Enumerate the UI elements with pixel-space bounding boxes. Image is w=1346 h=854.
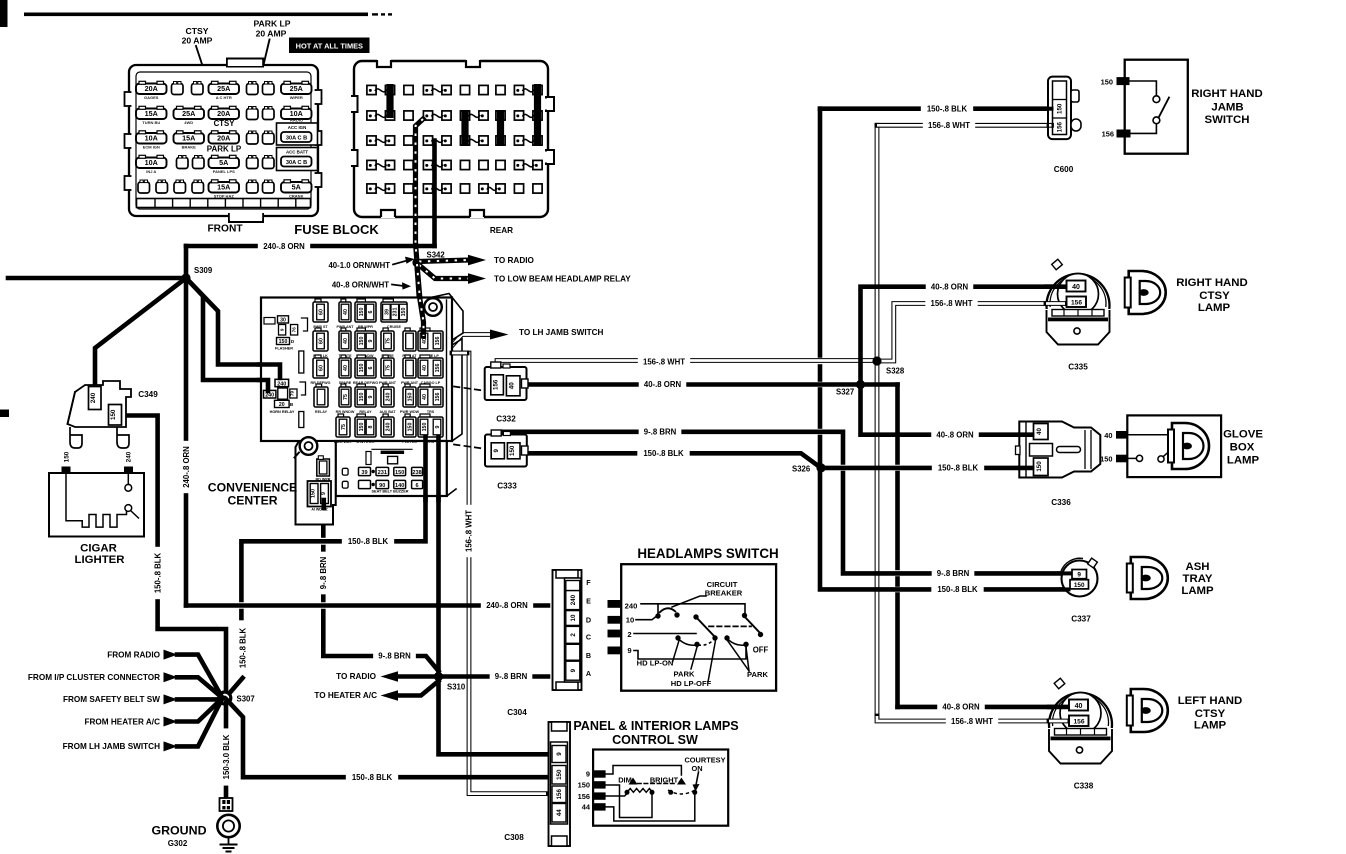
wire C349 150 to S307 xyxy=(121,416,158,547)
label 150-.8 BLK (ash tray) xyxy=(931,585,983,595)
label 9-.8 BRN (ash tray) xyxy=(932,569,975,579)
CC connector PWR ANT xyxy=(341,299,346,303)
CC connector A WYL DR xyxy=(357,414,365,418)
svg-text:TO LH JAMB SWITCH: TO LH JAMB SWITCH xyxy=(519,328,604,337)
svg-text:150: 150 xyxy=(1101,77,1113,86)
wire 40 ORN to LH ctsy lamp xyxy=(898,705,1076,710)
svg-text:40: 40 xyxy=(1036,428,1043,435)
svg-text:5A: 5A xyxy=(292,183,301,192)
svg-text:LAMP: LAMP xyxy=(1198,302,1231,314)
svg-text:150-.8 BLK: 150-.8 BLK xyxy=(352,773,393,782)
svg-text:15A: 15A xyxy=(217,183,230,192)
svg-text:76: 76 xyxy=(292,327,297,333)
fuse 10A ECM IGN xyxy=(136,133,167,144)
slot r4c xyxy=(247,158,259,169)
svg-text:44: 44 xyxy=(556,809,563,816)
RH jamb terminal 156 xyxy=(1117,130,1131,138)
wire stub 156 WHT into C335 xyxy=(1046,301,1065,306)
svg-text:40: 40 xyxy=(422,365,428,371)
svg-text:CONTROL SW: CONTROL SW xyxy=(612,733,698,747)
svg-text:C308: C308 xyxy=(504,833,524,842)
wire to LH jamb switch (white) xyxy=(450,335,490,349)
wire 40 ORN S327 up to RH ctsy lamp xyxy=(861,287,1068,385)
connector C333 xyxy=(485,435,527,467)
RH ctsy lamp socket C335 xyxy=(1047,310,1110,345)
svg-text:HD LP-OFF: HD LP-OFF xyxy=(671,679,712,688)
svg-text:FUSE BLOCK: FUSE BLOCK xyxy=(294,222,379,237)
svg-text:9: 9 xyxy=(368,339,374,342)
svg-text:9-.8 BRN: 9-.8 BRN xyxy=(937,569,970,578)
leader CTSY to fuse xyxy=(196,46,215,102)
svg-text:75: 75 xyxy=(341,424,347,430)
arrow TO HEATER A/C xyxy=(398,681,439,696)
svg-text:9-.8 BRN: 9-.8 BRN xyxy=(644,428,677,437)
label 9-.8 BRN (C333 run) xyxy=(639,427,682,437)
label 9-.8 BRN (left of S310) xyxy=(373,651,416,661)
svg-text:FROM SAFETY BELT SW: FROM SAFETY BELT SW xyxy=(63,695,160,704)
fuse 20A CTSY xyxy=(209,109,240,120)
wire 40 ORN/WHT S342 into convenience center xyxy=(417,266,424,345)
panel lamps switch box xyxy=(593,750,728,826)
CC blank slot 2 xyxy=(299,412,304,428)
breaker ACC BATT 30A xyxy=(277,148,318,171)
C308 connector body xyxy=(549,722,571,846)
svg-text:TRAY: TRAY xyxy=(1183,573,1213,585)
svg-text:HEADLAMPS SWITCH: HEADLAMPS SWITCH xyxy=(637,546,778,561)
svg-text:9: 9 xyxy=(368,395,374,398)
svg-text:79: 79 xyxy=(289,391,294,397)
svg-text:ACC BATT: ACC BATT xyxy=(286,150,308,155)
svg-text:A: A xyxy=(586,669,591,678)
wire stub 40 ORN into C335 xyxy=(1046,284,1065,289)
label 40-.8 ORN (glove box) xyxy=(931,430,979,440)
svg-text:150-.8 BLK: 150-.8 BLK xyxy=(937,585,978,594)
svg-text:CTSY: CTSY xyxy=(1195,708,1226,720)
svg-text:30A C B: 30A C B xyxy=(286,136,307,142)
svg-text:S309: S309 xyxy=(194,266,213,275)
svg-text:240-.8 ORN: 240-.8 ORN xyxy=(263,242,305,251)
svg-text:40: 40 xyxy=(1075,703,1083,710)
ash tray lamp socket C337 xyxy=(1062,561,1098,597)
svg-text:OFF: OFF xyxy=(753,646,769,655)
svg-text:150: 150 xyxy=(359,337,365,346)
svg-text:9: 9 xyxy=(570,668,577,672)
svg-text:156: 156 xyxy=(556,789,563,800)
svg-text:GROUND: GROUND xyxy=(151,824,206,838)
svg-text:E: E xyxy=(586,597,591,606)
glove box lamp switch xyxy=(1136,455,1142,461)
rear fuse block outline xyxy=(354,61,548,217)
svg-text:PARK: PARK xyxy=(747,670,768,679)
label 156-.8 WHT (LH ctsy) xyxy=(946,716,998,726)
wire S309 down to headlamp switch feed xyxy=(184,278,189,440)
label 240-.8 ORN top xyxy=(258,241,310,251)
svg-text:TURN BU: TURN BU xyxy=(142,120,160,125)
CC connector RR WDW xyxy=(357,328,365,332)
svg-text:9-.8 BRN: 9-.8 BRN xyxy=(319,556,328,589)
svg-text:60: 60 xyxy=(318,365,324,371)
CC connector CARGO LP xyxy=(420,355,430,359)
wire stub 150 BLK into C336 xyxy=(1020,466,1032,471)
svg-text:150-.8 BLK: 150-.8 BLK xyxy=(348,537,389,546)
wire S307 to C308 150 xyxy=(227,700,546,777)
fuse 25A 4WD xyxy=(174,109,205,120)
svg-text:150: 150 xyxy=(578,781,590,790)
svg-text:20A: 20A xyxy=(217,134,230,143)
svg-text:150: 150 xyxy=(556,769,563,780)
arrow TO RADIO (S310) xyxy=(398,674,433,679)
CC connector ['240'] xyxy=(383,414,388,418)
svg-text:240: 240 xyxy=(277,381,286,387)
ground G302 ring terminal xyxy=(220,798,233,811)
wire stub 156 WHT out of CC xyxy=(452,351,467,356)
CC lobe connector RD WPR xyxy=(317,459,330,476)
wire 40 ORN branch to glove box xyxy=(861,385,1039,435)
wire stub 40 ORN/WHT into CC xyxy=(417,264,424,336)
svg-text:CTSY: CTSY xyxy=(214,119,236,128)
svg-text:30: 30 xyxy=(280,318,286,324)
RH jamb switch box xyxy=(1125,60,1188,154)
svg-text:150: 150 xyxy=(1100,455,1112,464)
svg-text:C: C xyxy=(586,633,591,642)
CC connector PWR AT xyxy=(405,328,410,332)
label 150-.8 BLK (to C308) xyxy=(346,772,398,782)
wire stub left of S309 xyxy=(8,276,186,281)
CC connector RELAY xyxy=(316,384,322,388)
cigar lighter element and switch xyxy=(66,475,127,528)
CC connector AUX BAT xyxy=(383,384,388,388)
wire stub 150 BLK into C600 xyxy=(1049,107,1052,111)
slot r1b xyxy=(192,84,204,95)
label 240-.8 ORN headlamp feed xyxy=(481,601,533,611)
rear fuse block terminals xyxy=(367,85,376,94)
wire stub 156 WHT into C600 xyxy=(1049,123,1052,128)
CC buzzer box top bar xyxy=(381,451,405,454)
svg-text:20: 20 xyxy=(279,402,285,408)
svg-text:9-.8 BRN: 9-.8 BRN xyxy=(378,652,411,661)
rear block bus bar 3 xyxy=(497,110,504,146)
CC blank slot 3 xyxy=(366,452,371,465)
svg-text:25A: 25A xyxy=(290,84,303,93)
svg-text:TO HEATER A/C: TO HEATER A/C xyxy=(314,691,377,700)
svg-text:240: 240 xyxy=(126,451,133,462)
svg-text:AUX BAT: AUX BAT xyxy=(379,410,396,414)
wire stub CC lobe 9 slot xyxy=(321,500,326,508)
svg-text:ACC IGN: ACC IGN xyxy=(288,125,307,130)
svg-text:PARK LP: PARK LP xyxy=(253,19,290,29)
svg-text:10A: 10A xyxy=(145,158,158,167)
svg-text:BRAKE: BRAKE xyxy=(182,145,197,150)
CC connector PWR WDY xyxy=(338,414,344,418)
rear block bus bar 1 xyxy=(386,84,393,118)
svg-text:B: B xyxy=(586,651,591,660)
fuse 25A A C HTR xyxy=(209,84,240,95)
CC connector TRS xyxy=(420,384,430,388)
svg-text:RIGHT HAND: RIGHT HAND xyxy=(1176,277,1248,289)
svg-text:240-.8 ORN: 240-.8 ORN xyxy=(182,446,191,488)
CC lobe connector 150/9 xyxy=(308,481,332,507)
svg-text:150: 150 xyxy=(311,489,317,498)
svg-text:ON: ON xyxy=(691,764,702,773)
svg-text:RIGHT HAND: RIGHT HAND xyxy=(1191,88,1263,100)
svg-text:15A: 15A xyxy=(145,109,158,118)
splice S310 xyxy=(434,672,443,681)
front fuse block outline xyxy=(129,65,318,216)
svg-text:150: 150 xyxy=(359,364,365,373)
label 40-.8 ORN (RH ctsy) xyxy=(926,282,974,292)
fuse 25A WIPER xyxy=(281,84,312,95)
svg-text:156-.8 WHT: 156-.8 WHT xyxy=(464,510,473,552)
svg-text:9: 9 xyxy=(321,492,327,495)
label 9-.8 BRN vertical xyxy=(318,552,328,595)
svg-text:REAR: REAR xyxy=(490,226,513,235)
wire S309 branch to convenience center upper xyxy=(186,278,280,378)
wire CC 9 slot down to C308 xyxy=(439,441,547,754)
svg-text:FLASHER: FLASHER xyxy=(275,347,293,351)
wire 156 WHT vertical from convenience center to C308 xyxy=(455,353,469,508)
label 150-.8 BLK (C333 run) xyxy=(637,448,689,458)
CC connector PWR WDW xyxy=(405,384,410,388)
svg-text:4WD: 4WD xyxy=(184,120,193,125)
svg-text:HORN RELAY: HORN RELAY xyxy=(270,410,295,414)
glove box lamp bulb xyxy=(1172,423,1209,469)
top rule line xyxy=(24,13,368,17)
label 40-.8 ORN (C332 run) xyxy=(639,380,687,390)
svg-text:FROM HEATER A/C: FROM HEATER A/C xyxy=(84,717,160,726)
svg-text:30A C B: 30A C B xyxy=(286,160,307,166)
svg-text:20 AMP: 20 AMP xyxy=(256,29,287,39)
slot r4b xyxy=(193,158,205,169)
svg-text:150: 150 xyxy=(407,423,413,432)
svg-text:9: 9 xyxy=(493,449,500,453)
CC connector DOME LP xyxy=(420,328,430,332)
splice S307 xyxy=(217,690,232,705)
svg-text:150-.8 BLK: 150-.8 BLK xyxy=(927,105,968,114)
leader PARK LP to fuse xyxy=(249,40,270,127)
svg-text:5A: 5A xyxy=(219,158,228,167)
label 150-3.0 BLK vertical xyxy=(221,728,231,785)
svg-text:D: D xyxy=(586,616,591,625)
svg-text:ASH: ASH xyxy=(1185,561,1209,573)
wire 150 BLK S326 to glove box xyxy=(821,466,1038,471)
svg-text:SWITCH: SWITCH xyxy=(1205,114,1250,126)
svg-text:9: 9 xyxy=(586,770,590,779)
slot r2a xyxy=(247,109,259,120)
svg-text:150-.8 BLK: 150-.8 BLK xyxy=(643,449,684,458)
svg-text:C337: C337 xyxy=(1071,615,1091,624)
svg-text:150: 150 xyxy=(395,470,404,476)
svg-text:PANEL & INTERIOR LAMPS: PANEL & INTERIOR LAMPS xyxy=(573,719,738,733)
wire 240 ORN from rear fuse block xyxy=(432,141,437,247)
svg-text:PWR LS: PWR LS xyxy=(402,440,417,444)
svg-text:S310: S310 xyxy=(447,683,466,692)
svg-text:156: 156 xyxy=(578,792,590,801)
svg-text:156: 156 xyxy=(1073,719,1084,726)
svg-text:BRIGHT: BRIGHT xyxy=(650,775,679,784)
svg-text:CONVENIENCE: CONVENIENCE xyxy=(208,481,297,495)
svg-text:140: 140 xyxy=(395,483,404,489)
svg-text:156: 156 xyxy=(435,393,441,402)
wire 150 BLK S326 down to ash tray xyxy=(820,468,1064,590)
svg-text:INJ A: INJ A xyxy=(146,169,156,174)
wire stub 40 ORN into C338 xyxy=(1049,705,1068,710)
svg-text:CRUISE: CRUISE xyxy=(387,325,401,329)
svg-text:BOX: BOX xyxy=(1230,442,1255,454)
wire 9 BRN C333 to ash tray xyxy=(495,432,843,463)
wire 9 BRN from convenience center xyxy=(321,506,326,536)
svg-text:HOT AT ALL TIMES: HOT AT ALL TIMES xyxy=(296,42,363,51)
svg-text:9: 9 xyxy=(1077,572,1081,579)
fuse block bottom strip xyxy=(137,199,311,208)
svg-text:150: 150 xyxy=(359,308,365,317)
svg-text:150-.8 BLK: 150-.8 BLK xyxy=(238,627,247,668)
svg-text:C304: C304 xyxy=(507,708,527,717)
slot r5d xyxy=(192,182,204,193)
svg-text:156: 156 xyxy=(435,364,441,373)
svg-text:2: 2 xyxy=(570,633,577,637)
rear block bus bar 2 xyxy=(461,110,468,146)
CC connector T GATE xyxy=(341,328,346,332)
svg-text:40-.8 ORN: 40-.8 ORN xyxy=(942,703,980,712)
svg-text:C333: C333 xyxy=(497,482,517,491)
slot r4d xyxy=(263,158,275,169)
svg-text:CIGAR: CIGAR xyxy=(80,543,117,555)
wire 40 ORN C332 to S327 xyxy=(521,382,898,387)
svg-text:WIPER: WIPER xyxy=(290,95,303,100)
headlamp switch terminal blocks xyxy=(608,600,623,608)
svg-text:240: 240 xyxy=(570,594,577,605)
svg-text:150: 150 xyxy=(509,445,516,456)
svg-text:LIGHTER: LIGHTER xyxy=(75,554,125,566)
page corner mark xyxy=(0,0,8,27)
svg-text:40: 40 xyxy=(343,365,349,371)
slot r1d xyxy=(263,84,275,95)
slot r3b xyxy=(263,133,275,144)
svg-text:CENTER: CENTER xyxy=(227,494,277,508)
slot r2b xyxy=(263,109,275,120)
svg-text:156: 156 xyxy=(1057,121,1064,132)
svg-text:156-.8 WHT: 156-.8 WHT xyxy=(930,299,972,308)
CC mounting hole left xyxy=(300,437,318,455)
RH jamb terminal 150 xyxy=(1117,77,1130,85)
svg-text:PARK: PARK xyxy=(674,669,695,678)
svg-text:150: 150 xyxy=(407,393,413,402)
svg-text:40: 40 xyxy=(422,338,428,344)
svg-text:S327: S327 xyxy=(836,388,854,397)
svg-text:156-.8 WHT: 156-.8 WHT xyxy=(643,358,685,367)
svg-text:150: 150 xyxy=(359,423,365,432)
svg-text:150: 150 xyxy=(110,409,117,420)
svg-text:BREAKER: BREAKER xyxy=(705,589,743,598)
svg-text:9: 9 xyxy=(627,646,631,655)
svg-text:PWR WDY: PWR WDY xyxy=(334,440,353,444)
svg-text:40: 40 xyxy=(508,382,515,389)
svg-text:40: 40 xyxy=(1072,284,1080,291)
wire stub CC 150 slot through buzzer box xyxy=(423,437,428,500)
svg-text:C332: C332 xyxy=(496,415,516,424)
svg-text:25A: 25A xyxy=(182,109,195,118)
svg-text:RELAY: RELAY xyxy=(359,410,372,414)
svg-text:S328: S328 xyxy=(886,367,905,376)
CC connector PWR LK xyxy=(315,328,321,332)
wire 150 BLK to C600 xyxy=(820,106,1052,111)
svg-text:10: 10 xyxy=(570,614,577,621)
label 156-.8 WHT (C600 run) xyxy=(923,121,975,131)
arrow TO LH JAMB SWITCH xyxy=(490,330,509,340)
HOT AT ALL TIMES tag xyxy=(289,38,370,54)
cigar lighter box xyxy=(49,473,144,537)
CC connector TRS xyxy=(420,414,430,418)
wire 156 WHT jog to RH ctsy lamp xyxy=(877,304,1070,362)
svg-text:G302: G302 xyxy=(168,839,188,848)
svg-text:S342: S342 xyxy=(427,251,446,260)
wire 150 BLK C333 to S326 xyxy=(521,453,821,468)
svg-text:9: 9 xyxy=(280,328,285,331)
svg-text:DIM: DIM xyxy=(618,775,632,784)
fuse 10A RADIO xyxy=(281,109,312,120)
headlamp switch internals xyxy=(641,604,658,613)
svg-text:240: 240 xyxy=(90,392,97,403)
panel switch terminal blocks xyxy=(593,770,606,777)
slot r5f xyxy=(263,182,275,193)
connector C600 xyxy=(1048,77,1071,140)
connector C332 xyxy=(485,367,527,400)
svg-text:TO RADIO: TO RADIO xyxy=(494,256,535,265)
svg-text:240: 240 xyxy=(385,423,391,432)
svg-text:150: 150 xyxy=(279,339,288,345)
svg-text:150: 150 xyxy=(359,393,365,402)
svg-text:A C HTR: A C HTR xyxy=(216,95,232,100)
svg-text:240: 240 xyxy=(625,602,638,611)
svg-text:39: 39 xyxy=(361,470,367,476)
label 150-.8 BLK vertical cigar xyxy=(153,547,163,599)
glove box lamp box xyxy=(1127,415,1221,477)
convenience center body xyxy=(433,294,463,341)
wire stub CC 9 slot through buzzer box xyxy=(436,437,441,500)
svg-text:PWR WDW: PWR WDW xyxy=(400,410,420,414)
C304 connector body xyxy=(553,570,582,690)
label 156-.8 WHT vertical (CC to C308) xyxy=(464,505,474,557)
svg-text:150: 150 xyxy=(1036,461,1043,472)
svg-text:75: 75 xyxy=(343,394,349,400)
svg-text:C338: C338 xyxy=(1074,782,1094,791)
svg-text:20 AMP: 20 AMP xyxy=(182,36,213,46)
label 156-.8 WHT (RH ctsy) xyxy=(925,299,977,309)
wire 40 ORN/WHT S342 to low beam relay xyxy=(419,265,469,279)
wire stub S309 branch into CC upper xyxy=(259,365,280,379)
CC seat belt buzzer box xyxy=(342,468,348,475)
svg-text:LAMP: LAMP xyxy=(1194,720,1227,732)
rear block bus bar 4 xyxy=(534,84,541,146)
wire 156 WHT C600 branch vertical bus xyxy=(875,125,880,716)
CC mounting hole top-right xyxy=(424,298,442,316)
svg-text:150: 150 xyxy=(401,308,407,317)
svg-text:156-.8 WHT: 156-.8 WHT xyxy=(928,121,970,130)
splice S342 xyxy=(412,258,421,267)
svg-text:10A: 10A xyxy=(145,134,158,143)
svg-text:S326: S326 xyxy=(792,465,811,474)
svg-text:238: 238 xyxy=(412,470,421,476)
svg-text:RELAY: RELAY xyxy=(315,410,328,414)
fuse 20A GAGES xyxy=(136,84,167,95)
svg-text:TRS: TRS xyxy=(427,410,435,414)
svg-text:FROM RADIO: FROM RADIO xyxy=(107,650,160,659)
slot r5b xyxy=(156,182,168,193)
svg-text:15A: 15A xyxy=(182,134,195,143)
svg-text:C600: C600 xyxy=(1054,165,1074,174)
label 150-.8 BLK (CC bottom) xyxy=(342,536,394,546)
svg-text:156: 156 xyxy=(435,337,441,346)
